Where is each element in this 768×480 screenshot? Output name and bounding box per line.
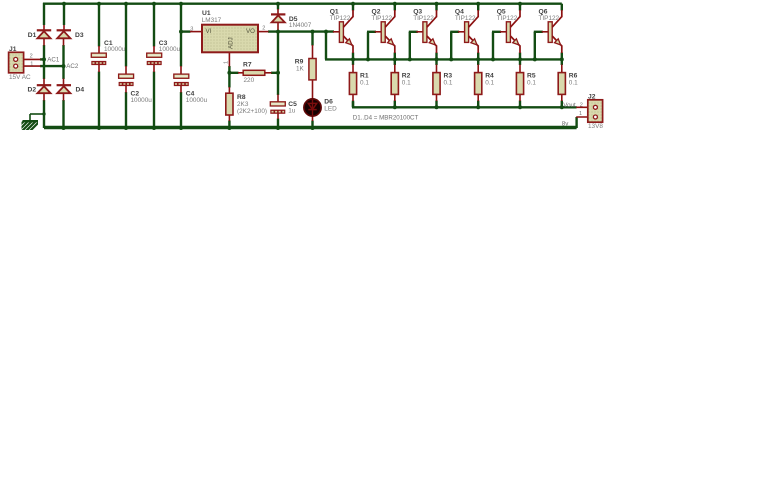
junction VO net x=312.5	[311, 30, 315, 34]
wire VO down to base bus	[325, 32, 327, 60]
junction AC1	[42, 57, 46, 61]
junction VO net x=326	[324, 30, 328, 34]
wire R8 top	[228, 73, 230, 88]
pin R8 top	[228, 87, 230, 93]
pin R9 top	[312, 45, 314, 59]
wire raw rail to U1 VI	[181, 30, 191, 32]
wire D4 anode down	[62, 100, 64, 128]
pin C4 top	[180, 66, 182, 74]
junction ground rail x=278	[276, 126, 280, 130]
pin J1-2	[18, 58, 41, 60]
svg-text:0.1: 0.1	[485, 79, 494, 86]
junction ADJ/R7/R8	[227, 71, 231, 75]
wire Q3 base horizontal	[409, 31, 418, 33]
svg-text:13V8: 13V8	[588, 123, 603, 130]
junction ground rail x=181	[179, 126, 183, 130]
svg-text:0.1: 0.1	[569, 79, 578, 86]
LED D6	[304, 99, 321, 116]
wire D2 anode to ground rail	[44, 100, 577, 128]
capacitor C3	[147, 53, 162, 65]
pin D3 anode	[63, 39, 65, 46]
wire Q6 base horizontal	[534, 31, 543, 33]
junction top rail x=520	[518, 2, 522, 6]
wire D5 top stub	[277, 4, 279, 10]
junction top rail x=478.2	[476, 2, 480, 6]
svg-text:1: 1	[224, 61, 230, 64]
junction ground rail x=99	[97, 126, 101, 130]
wire Q3 emitter to bus	[435, 53, 437, 66]
wire Q4 collector to rail	[477, 4, 479, 11]
svg-text:10000u: 10000u	[131, 97, 153, 104]
pin C3 bottom	[153, 65, 155, 72]
wire AC2 vertical D3-D4	[62, 45, 64, 79]
junction bus x=409.8	[408, 57, 412, 61]
wire ground tap drop	[29, 114, 31, 121]
resistor R5	[516, 73, 523, 95]
junction top rail x=353	[351, 2, 355, 6]
pin R7 left	[238, 72, 243, 74]
transistor Q6 TIP122	[542, 10, 562, 53]
wire C1 top branch	[98, 4, 100, 47]
wire C2 top branch	[125, 4, 127, 67]
junction bus x=353	[351, 57, 355, 61]
wire Q5 base horizontal	[492, 31, 501, 33]
pin C3 top	[153, 46, 155, 53]
pin R3 top	[436, 65, 438, 73]
transistor Q2 TIP122	[375, 10, 395, 53]
pin D5 top	[277, 9, 279, 14]
wire U1 pin1 to ADJ node	[228, 66, 230, 73]
pin U1 ADJ	[228, 52, 230, 66]
svg-text:VO: VO	[246, 28, 255, 35]
wire Q2 emitter to bus	[394, 53, 396, 66]
junction top rail x=394.8	[393, 2, 397, 6]
svg-text:1u: 1u	[288, 107, 296, 114]
wire R3 bottom to output rail	[435, 101, 437, 108]
wire Q5 emitter to bus	[519, 53, 521, 66]
svg-text:(2K2+100): (2K2+100)	[237, 108, 267, 115]
junction bus x=478.2	[476, 57, 480, 61]
wire AC1 vertical D1-D2	[43, 45, 45, 79]
pin D1 cathode	[43, 25, 45, 30]
junction top rail x=154	[152, 2, 156, 6]
junction top rail x=436.5	[435, 2, 439, 6]
op-amp/regulator U1 LM317 body	[202, 25, 258, 53]
wire R1 bottom to output rail	[352, 101, 354, 108]
diode D2	[37, 85, 51, 93]
junction bus x=451.2	[449, 57, 453, 61]
pin R6 top	[561, 65, 563, 73]
svg-text:2: 2	[262, 26, 265, 32]
pin J1-1	[18, 65, 41, 67]
junction output rail x=394.8	[393, 105, 397, 109]
transistor Q3 TIP122	[416, 10, 436, 53]
svg-text:1N4007: 1N4007	[289, 22, 312, 29]
junction ground rail x=229.4	[227, 126, 231, 130]
junction raw/U1-VI	[179, 30, 183, 34]
wire base/emitter bus	[325, 58, 562, 60]
resistor R6	[558, 73, 565, 95]
pin D2 cathode	[43, 79, 45, 86]
wire VO net horizontal	[268, 30, 334, 32]
svg-text:0.1: 0.1	[360, 79, 369, 86]
junction bus x=534.8	[533, 57, 537, 61]
wire Q3 collector to rail	[435, 4, 437, 11]
pin C4 bottom	[180, 86, 182, 93]
pin U1 VI	[190, 31, 202, 33]
svg-text:R7: R7	[243, 61, 252, 68]
wire C1 bottom down	[98, 72, 100, 129]
svg-text:TIP122: TIP122	[413, 15, 434, 22]
svg-text:AC2: AC2	[66, 63, 79, 70]
svg-text:15V AC: 15V AC	[9, 74, 31, 81]
pin D3 cathode	[63, 25, 65, 30]
svg-text:1: 1	[579, 111, 582, 117]
wire ADJ node to R7	[229, 72, 238, 74]
wire Q1 emitter to bus	[352, 53, 354, 66]
svg-text:2: 2	[580, 102, 583, 108]
pin R8 bottom	[228, 115, 230, 121]
junction bus x=368	[366, 57, 370, 61]
pin R2 top	[394, 65, 396, 73]
wire Q5 base riser	[492, 32, 494, 60]
pin D4 cathode	[63, 79, 65, 86]
svg-text:1: 1	[30, 61, 33, 67]
resistor R1	[349, 73, 356, 95]
junction bus x=561.8	[560, 57, 564, 61]
svg-text:LM317: LM317	[202, 17, 222, 24]
ground symbol	[14, 119, 42, 131]
wire R5 bottom to output rail	[519, 101, 521, 108]
wire Q6 collector to rail	[561, 4, 563, 11]
wire LED bottom to rail	[311, 121, 313, 129]
wire ground tap	[30, 113, 44, 115]
svg-text:3: 3	[190, 26, 193, 32]
svg-text:2K3: 2K3	[237, 101, 249, 108]
svg-text:10000u: 10000u	[104, 46, 126, 53]
svg-text:10000u: 10000u	[186, 97, 208, 104]
pin J2-2 Vout	[576, 106, 593, 108]
svg-text:D2: D2	[28, 87, 37, 94]
junction ground rail x=154	[152, 126, 156, 130]
capacitor C4	[174, 74, 189, 86]
junction output rail x=478.2	[476, 105, 480, 109]
resistor R7	[243, 70, 265, 75]
junction output rail x=520	[518, 105, 522, 109]
svg-text:J1: J1	[9, 46, 17, 53]
svg-text:D3: D3	[75, 32, 84, 39]
wire R2 bottom to output rail	[394, 101, 396, 108]
wire AC1 from J1 pin2	[40, 58, 44, 60]
diode D3	[57, 30, 71, 38]
svg-text:D4: D4	[76, 87, 85, 94]
svg-text:TIP122: TIP122	[455, 15, 476, 22]
pin C5 top	[277, 95, 279, 102]
svg-text:8v: 8v	[562, 120, 569, 127]
wire R9 top from VO	[311, 32, 313, 46]
pin LED bottom	[312, 116, 314, 122]
wire C3 bottom down	[153, 72, 155, 129]
capacitor C2	[119, 74, 134, 86]
wire Q2 base riser	[367, 32, 369, 60]
junction bus x=493	[491, 57, 495, 61]
svg-text:0.1: 0.1	[527, 79, 536, 86]
junction top rail x=278	[276, 2, 280, 6]
capacitor C1	[91, 53, 106, 65]
svg-text:D1: D1	[28, 32, 37, 39]
pin D1 anode	[43, 39, 45, 46]
resistor R9	[309, 59, 316, 80]
pin D4 anode	[63, 94, 65, 101]
svg-text:220: 220	[244, 77, 255, 84]
svg-text:LED: LED	[324, 106, 337, 113]
wire bottom ground rail	[44, 127, 577, 129]
wire Q4 base horizontal	[450, 31, 459, 33]
svg-text:Vout: Vout	[563, 102, 576, 109]
junction output rail x=561.8	[560, 105, 564, 109]
wire output rail	[352, 102, 577, 108]
wire Q2 base horizontal	[367, 31, 376, 33]
wire Q3 base riser	[409, 32, 411, 60]
svg-text:0.1: 0.1	[402, 79, 411, 86]
wire Q4 emitter to bus	[477, 53, 479, 66]
wire top positive rail	[43, 3, 562, 5]
svg-text:D1..D4 = MBR20100CT: D1..D4 = MBR20100CT	[353, 114, 419, 121]
connector J2	[588, 100, 603, 122]
svg-text:1K: 1K	[296, 66, 305, 73]
wire Q2 collector to rail	[394, 4, 396, 11]
svg-text:TIP122: TIP122	[497, 15, 518, 22]
wire D1 top branch	[43, 3, 45, 25]
wire D5/C5 vertical	[277, 30, 279, 95]
wire Q6 emitter to bus	[561, 53, 563, 66]
junction top rail x=181	[179, 2, 183, 6]
pin C1 bottom	[98, 65, 100, 72]
pin R5 bottom	[519, 94, 521, 101]
capacitor C5	[270, 102, 285, 114]
pin U1 VO	[258, 31, 269, 33]
svg-text:0.1: 0.1	[444, 79, 453, 86]
connector J1	[9, 52, 24, 73]
junction output rail x=436.5	[435, 105, 439, 109]
pin R4 top	[477, 65, 479, 73]
junction R7/D5/C5	[276, 71, 280, 75]
svg-text:TIP122: TIP122	[539, 15, 560, 22]
junction AC2	[62, 64, 66, 68]
junction top rail x=126	[124, 2, 128, 6]
resistor R4	[475, 73, 482, 95]
wire R7 right to D5 node	[271, 72, 278, 74]
pin C5 bottom	[277, 113, 279, 120]
pin R7 right	[265, 72, 272, 74]
junction ground rail x=63.5	[62, 126, 66, 130]
pin R6 bottom	[561, 94, 563, 101]
pin C2 bottom	[125, 86, 127, 93]
transistor Q1 TIP122	[333, 10, 353, 53]
resistor R3	[433, 73, 440, 95]
svg-text:ADJ: ADJ	[227, 37, 234, 49]
pin C1 top	[98, 46, 100, 53]
svg-text:TIP122: TIP122	[330, 15, 351, 22]
wire Q4 base riser	[450, 32, 452, 60]
pin D5 bottom	[277, 22, 279, 32]
resistor R8	[226, 93, 233, 115]
pin R1 top	[352, 65, 354, 73]
junction bus x=394.8	[393, 57, 397, 61]
pin D2 anode	[43, 94, 45, 101]
wire Q6 base riser	[534, 32, 536, 60]
diode D1	[37, 30, 51, 38]
wire C5 bottom to rail	[277, 119, 279, 129]
wire R4 bottom to output rail	[477, 101, 479, 108]
svg-text:VI: VI	[206, 28, 212, 35]
junction VO net x=278	[276, 30, 280, 34]
pin R3 bottom	[436, 94, 438, 101]
wire R8 bottom to rail	[228, 121, 230, 129]
pin R5 top	[519, 65, 521, 73]
wire C4 top branch	[180, 4, 182, 67]
wire C2 bottom down	[125, 92, 127, 128]
pin R1 bottom	[352, 94, 354, 101]
svg-text:AC1: AC1	[47, 56, 60, 63]
wire C3 top branch	[153, 4, 155, 47]
svg-text:J2: J2	[588, 93, 596, 100]
wire ground up to J2 pin1	[575, 117, 577, 128]
svg-text:2: 2	[30, 54, 33, 60]
wire D3 top branch	[63, 4, 65, 25]
pin C2 top	[125, 66, 127, 74]
wire AC2 from J1 pin1	[40, 65, 64, 67]
svg-text:R9: R9	[295, 59, 304, 66]
junction top rail x=99	[97, 2, 101, 6]
junction top rail x=64	[62, 2, 66, 6]
transistor Q5 TIP122	[500, 10, 520, 53]
pin R9 bottom / LED top	[312, 80, 314, 100]
wire C4 bottom down	[180, 92, 182, 128]
svg-text:TIP122: TIP122	[372, 15, 393, 22]
resistor R2	[391, 73, 398, 95]
wire Q1 collector to rail	[352, 4, 354, 11]
pin J2-1	[576, 116, 593, 118]
junction bus x=520	[518, 57, 522, 61]
pin R2 bottom	[394, 94, 396, 101]
junction bus x=436.5	[435, 57, 439, 61]
pin R4 bottom	[477, 94, 479, 101]
wire Q5 collector to rail	[519, 4, 521, 11]
junction ground rail x=312.5	[311, 126, 315, 130]
diode D4	[57, 85, 71, 93]
wire R6 bottom to output rail	[561, 101, 563, 108]
junction ground tap	[42, 112, 45, 115]
junction ground rail x=126	[124, 126, 128, 130]
svg-text:10000u: 10000u	[159, 46, 181, 53]
diode D5	[271, 14, 285, 22]
transistor Q4 TIP122	[458, 10, 478, 53]
